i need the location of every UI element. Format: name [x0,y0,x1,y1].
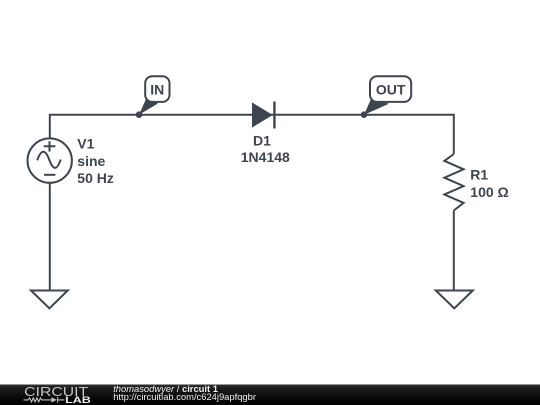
svg-text:D1: D1 [253,132,271,148]
svg-text:50 Hz: 50 Hz [77,170,114,186]
svg-text:1N4148: 1N4148 [241,149,290,165]
svg-text:IN: IN [150,81,164,97]
svg-text:sine: sine [77,153,105,169]
svg-text:R1: R1 [470,166,488,182]
svg-text:OUT: OUT [376,81,406,97]
svg-text:V1: V1 [77,136,94,152]
svg-text:http://circuitlab.com/c624j9ap: http://circuitlab.com/c624j9apfqgbr [113,391,256,402]
svg-text:LAB: LAB [65,395,91,405]
svg-text:100 Ω: 100 Ω [470,184,508,200]
